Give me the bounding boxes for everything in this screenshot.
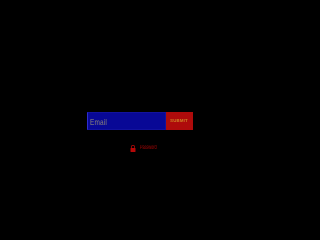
submit button xyxy=(166,112,193,130)
email signup form row xyxy=(87,112,193,130)
password label xyxy=(140,145,157,151)
lock icon xyxy=(130,145,136,152)
email text input (placeholder "Email") xyxy=(87,112,166,130)
password link row xyxy=(130,145,167,152)
